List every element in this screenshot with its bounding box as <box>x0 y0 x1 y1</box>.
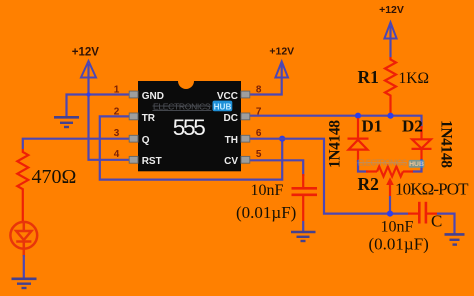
pin 3 stub and number <box>114 128 138 142</box>
svg-text:R1: R1 <box>358 67 379 87</box>
svg-text:DC: DC <box>224 113 238 124</box>
pin 2 stub and number <box>114 106 138 119</box>
wire: +12V arrow to R1 <box>389 26 391 58</box>
diode D1 1N4148 (cathode up) <box>348 118 369 162</box>
svg-text:5: 5 <box>256 149 262 160</box>
svg-text:+12V: +12V <box>379 4 404 16</box>
svg-text:HUB: HUB <box>214 102 232 111</box>
svg-text:1: 1 <box>114 85 120 96</box>
svg-text:2: 2 <box>114 106 120 117</box>
junction dot (crossing blob at +12V / pin1 wire) <box>86 92 90 96</box>
svg-text:10nF: 10nF <box>381 219 414 236</box>
svg-text:GND: GND <box>142 91 164 102</box>
svg-text:8: 8 <box>256 85 262 96</box>
wire: D2 bottom to R2 right end <box>412 159 422 172</box>
diode D2 1N4148 (anode up) <box>412 126 432 161</box>
svg-text:D1: D1 <box>362 117 383 136</box>
wire: R2 wiper down to cap node <box>389 196 391 214</box>
svg-text:10nF: 10nF <box>251 182 284 199</box>
wire: DC pin 7 line to D2 <box>249 116 422 128</box>
svg-text:1N4148: 1N4148 <box>327 120 344 168</box>
wire: TR pin 2 tied under IC to TH wire <box>100 116 282 179</box>
svg-text:470Ω: 470Ω <box>32 166 77 188</box>
pin 8 stub and number <box>241 85 262 98</box>
pin 6 stub and number <box>241 128 262 142</box>
watermark Electronics Hub (inside IC) <box>153 101 233 112</box>
watermark Electronics Hub (near R2) <box>358 159 425 169</box>
wire: +12V arrow down to RST pin 4 <box>89 64 131 160</box>
LED D3 <box>10 222 37 257</box>
capacitor 10nF (CV bypass) <box>292 174 318 221</box>
svg-text:4: 4 <box>114 149 120 160</box>
svg-text:7: 7 <box>256 106 262 117</box>
svg-text:6: 6 <box>256 128 262 139</box>
pin 1 stub and number <box>114 85 138 98</box>
pin 7 stub and number <box>241 106 262 119</box>
svg-text:(0.01µF): (0.01µF) <box>369 235 429 254</box>
wire: TH pin 6 around to cap node <box>249 139 408 214</box>
wire: C to ground <box>437 214 455 234</box>
svg-text:1KΩ: 1KΩ <box>399 70 429 87</box>
svg-text:555: 555 <box>173 115 206 140</box>
potentiometer R2 10K (zigzag and wiper arrow) <box>366 167 413 197</box>
svg-text:RST: RST <box>142 156 162 167</box>
junction node (R1 bottom on pin 7 wire) <box>387 113 393 119</box>
svg-text:TH: TH <box>225 135 238 146</box>
wire: CV cap to ground <box>302 221 304 231</box>
wire: VCC pin 8 to +12V arrow <box>249 64 282 95</box>
op-amp / IC U1 555 timer body <box>138 81 241 171</box>
junction node (D1 top on pin 7 wire) <box>355 113 361 119</box>
svg-text:R2: R2 <box>358 174 379 194</box>
svg-text:D2: D2 <box>402 117 423 136</box>
svg-text:+12V: +12V <box>72 47 100 59</box>
svg-text:TR: TR <box>142 113 156 124</box>
resistor 470 ohm <box>17 149 28 192</box>
svg-text:Q: Q <box>142 135 150 146</box>
power +12V supply (to RST pin 4) <box>72 47 100 78</box>
power +12V supply (VCC pin 8) <box>269 46 294 78</box>
wire: LED to ground <box>23 255 25 278</box>
svg-text:(0.01µF): (0.01µF) <box>236 203 296 222</box>
ground (CV cap) <box>291 232 316 241</box>
svg-text:+12V: +12V <box>269 46 294 58</box>
wire: 470 ohm to LED <box>22 192 24 222</box>
capacitor C 10nF (timing cap) <box>408 202 437 224</box>
svg-text:3: 3 <box>114 128 120 139</box>
svg-text:HUB: HUB <box>409 161 424 168</box>
wire: pin 1 GND to ground symbol <box>67 95 131 117</box>
junction node (wiper / cap node) <box>387 211 393 217</box>
ground (LED) <box>12 279 37 288</box>
junction node (TR tie on TH wire) <box>279 136 285 142</box>
svg-text:1N4148: 1N4148 <box>438 120 455 168</box>
pin 5 stub and number <box>241 149 262 163</box>
power +12V supply (top of R1) <box>379 4 404 38</box>
ground (C) <box>445 234 465 244</box>
resistor R1 1K ohm <box>385 57 396 115</box>
svg-text:10KΩ-POT: 10KΩ-POT <box>395 180 469 199</box>
wire: CV pin 5 to bypass cap <box>249 160 303 176</box>
wire: Q pin 3 to 470 ohm resistor <box>23 139 130 149</box>
ground (pin 1 GND) <box>54 117 79 127</box>
svg-text:CV: CV <box>224 156 238 167</box>
wire: D1 bottom to R2 left end <box>358 160 368 172</box>
svg-text:VCC: VCC <box>217 91 238 102</box>
pin 4 stub and number <box>114 149 138 163</box>
